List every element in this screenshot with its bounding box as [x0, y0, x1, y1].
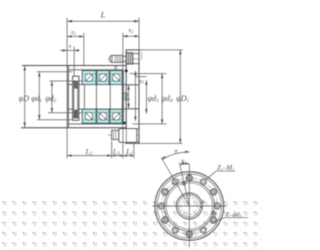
- svg-text:θ1: θ1: [181, 159, 186, 165]
- threaded hole 120deg: [210, 217, 216, 223]
- L2 arrows: [67, 154, 72, 156]
- angle arc outer arrows: [185, 151, 189, 153]
- seal plate top hatch: [74, 81, 78, 88]
- hidden circle dashed: [181, 197, 198, 214]
- clamp bolt tip: [110, 55, 112, 62]
- phi-D1 arrows: [179, 50, 181, 55]
- small lube hole upper: [183, 182, 186, 185]
- plain hole 210deg: [172, 227, 178, 233]
- clamp bolt collar: [123, 56, 127, 61]
- shaft bore bottom line: [68, 108, 139, 110]
- extension line phi-d4 top: [130, 73, 167, 75]
- angle arc inner arrows: [185, 162, 189, 164]
- dimension line phi-D1: [179, 50, 181, 143]
- L3 arrows: [112, 155, 116, 157]
- seal plate inner bore: [74, 81, 78, 118]
- svg-text:x: x: [68, 44, 72, 50]
- bolt pitch circle dash-dot: [161, 178, 217, 234]
- seal plate bottom hatch: [74, 110, 78, 118]
- dimension line x2 left: [67, 35, 84, 37]
- phi-d arrows: [127, 85, 129, 90]
- phi-d3 arrows: [145, 80, 147, 85]
- extension line L1 right: [133, 144, 135, 159]
- phi-d4 arrows: [161, 74, 163, 79]
- svg-text:L: L: [100, 10, 106, 20]
- svg-text:x2: x2: [127, 28, 133, 34]
- dimension line phi-d3: [145, 80, 147, 113]
- dimension line bottom L2 L3 L1: [67, 155, 134, 157]
- dimension line phi-d4: [161, 74, 163, 124]
- plain hole 150deg: [200, 227, 206, 233]
- clamp bolt head: [126, 53, 133, 64]
- x arrows outside: [63, 49, 68, 51]
- grease fitting thread part: [112, 130, 119, 139]
- phi-d1 arrows: [38, 72, 40, 77]
- clamp bolt shank: [112, 55, 123, 62]
- grease fitting to flange lines: [137, 128, 139, 130]
- dotted grid background: [0, 197, 263, 250]
- extension line left outer: [66, 18, 68, 158]
- extension line phi-D1 top: [137, 49, 183, 51]
- threaded hole bottom: [186, 231, 192, 237]
- angle arc inner: [180, 164, 189, 165]
- flange bore lines: [126, 84, 139, 86]
- plain hole 30deg: [200, 179, 206, 185]
- extension line L2 left is shared, fitting left: [111, 141, 113, 158]
- housing top edge with phi-D top extension line: [22, 65, 126, 67]
- grease fitting axis: [108, 134, 140, 136]
- angle arc outer: [162, 152, 190, 160]
- svg-text:x1: x1: [138, 79, 144, 85]
- dimension line phi-d bore: [128, 85, 130, 108]
- dimension line x2 right: [123, 35, 139, 37]
- clamp bolt head socket lines: [127, 53, 129, 64]
- dimension line bearing OD x1: [134, 71, 136, 121]
- bearing teal band top row: [82, 71, 122, 85]
- extension line phi-d2 top: [50, 80, 83, 82]
- plain hole 270deg: [158, 203, 164, 209]
- grease fitting body: [119, 129, 137, 143]
- extension line right outer: [138, 18, 140, 50]
- dimension line phi-d2: [51, 81, 53, 112]
- extension line bearing right face: [122, 33, 124, 158]
- threaded hole M1 top: [186, 175, 192, 181]
- threaded hole 60deg: [210, 189, 216, 195]
- extension line phi-d2 bottom: [48, 112, 82, 114]
- small lube hole lower right: [212, 212, 215, 215]
- flange chamfer line: [141, 52, 143, 60]
- dimension line L: [67, 20, 139, 22]
- bearing balls top row: [85, 74, 120, 82]
- shaft bore top line: [68, 84, 139, 86]
- grease fitting thread lines: [112, 130, 114, 139]
- pilot boss circle inner: [166, 183, 212, 229]
- dimension line phi-d1: [38, 72, 40, 120]
- left seal plate: [73, 76, 79, 120]
- dimension line phi-D: [24, 66, 26, 127]
- extension line bearing left face: [83, 33, 85, 65]
- svg-text:x2: x2: [70, 30, 76, 36]
- svg-text:φD: φD: [19, 94, 29, 103]
- angle reference line 30deg: [161, 158, 189, 207]
- grease fitting body line: [125, 129, 127, 143]
- bore circle inner: [178, 195, 200, 217]
- seal ring section bottom: [123, 122, 126, 124]
- inner ring face lines in bore: [84, 85, 110, 110]
- extension line seal plate face: [73, 47, 75, 76]
- bolt holes: threaded at 0/60/120/180/240/300 deg, plain at 30/90/150/210/270/330: [158, 175, 220, 237]
- dimension line x with outside arrows: [60, 49, 67, 51]
- L arrows: [67, 20, 72, 23]
- flange outer circle: [155, 172, 224, 241]
- bearing teal band bottom row: [82, 109, 122, 123]
- x2 left arrows: [67, 35, 72, 37]
- bearing stack right face: [121, 71, 123, 124]
- extension line phi-D1 bottom: [133, 142, 183, 144]
- housing bottom edge with phi-D bottom extension line: [21, 127, 126, 129]
- arrowheads: [24, 20, 182, 157]
- clamp bolt axis: [108, 58, 139, 60]
- contact angle lines bottom band: [85, 112, 120, 120]
- horizontal centerline: [152, 205, 227, 207]
- raceway lines top band: [82, 73, 122, 75]
- x1 reference line: [135, 76, 146, 78]
- bearing balls bottom row: [85, 112, 120, 120]
- extension line phi-d1 bottom: [37, 119, 73, 121]
- bore circle outer: [176, 193, 202, 219]
- angle reference line 12.6deg: [179, 163, 189, 206]
- phi-d2 arrows: [51, 81, 53, 86]
- housing inner bore shoulder top: [68, 69, 123, 71]
- flange plate right: [126, 50, 139, 143]
- threaded hole 240deg: [162, 217, 168, 223]
- x2 right arrows: [123, 35, 128, 37]
- svg-text:θ: θ: [175, 149, 178, 155]
- phi-D arrows: [24, 66, 26, 71]
- extension line phi-d4 bottom: [132, 123, 166, 125]
- svg-text:φd: φd: [121, 91, 130, 100]
- vertical centerline: [188, 164, 190, 248]
- bolt hole in housing: [114, 66, 116, 70]
- housing left face: [67, 66, 69, 128]
- L1 arrows: [123, 155, 127, 157]
- clamp bolt thread lines: [115, 56, 120, 63]
- flange rim circle: [157, 174, 221, 238]
- seal ring section top: [125, 70, 128, 72]
- tiny colored marks near flange center: [199, 200, 202, 204]
- spacer face line: [122, 70, 124, 124]
- raceway lines bottom band: [82, 112, 122, 114]
- plain hole 330deg: [172, 179, 178, 185]
- contact angle lines top band: [85, 74, 120, 82]
- plain hole 90deg: [214, 203, 220, 209]
- threaded hole 300deg: [162, 189, 168, 195]
- extension line phi-d1 top: [37, 71, 73, 73]
- x1 line arrows: [134, 71, 136, 76]
- pilot boss circle outer: [164, 181, 214, 231]
- housing inner bore shoulder bottom: [68, 123, 123, 125]
